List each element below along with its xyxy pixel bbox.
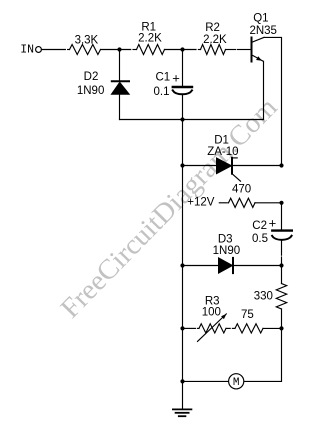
value 75 [241, 309, 254, 321]
resistor 330 [276, 284, 286, 310]
node B junction [180, 47, 184, 51]
net +12V label [187, 196, 215, 208]
resistor R1 [137, 45, 165, 55]
resistor 470 [229, 198, 256, 207]
node 470 junction [279, 201, 283, 205]
watermark FreeCircuitDiagram.Com [55, 92, 284, 325]
resistor R2 [201, 45, 226, 55]
label R1 [141, 22, 156, 34]
value 1N90 of D2 [77, 85, 105, 97]
label C1 [156, 71, 171, 83]
wire IN to 3.3K [41, 49, 65, 51]
svg-text:D1: D1 [214, 134, 229, 146]
wire Q1 emitter down [263, 61, 265, 119]
svg-text:330: 330 [254, 290, 273, 302]
svg-text:0.1: 0.1 [154, 86, 170, 98]
label Q1 [253, 13, 268, 25]
label R2 [205, 22, 220, 34]
value 2N35 [249, 25, 277, 37]
svg-text:C2: C2 [252, 220, 267, 232]
transistor Q1 [252, 37, 265, 61]
diode D3 [183, 258, 282, 273]
wire 3.3K to node A [101, 49, 131, 51]
svg-text:M: M [233, 377, 240, 389]
svg-text:1N90: 1N90 [213, 245, 241, 257]
resistor 3.3K [70, 45, 101, 55]
capacitor C2 [272, 231, 292, 266]
node D1 right junction [279, 163, 283, 167]
value 470 [232, 183, 251, 195]
motor M [229, 374, 244, 389]
svg-text:470: 470 [232, 183, 251, 195]
svg-text:+: + [172, 70, 180, 85]
node E junction left [180, 326, 184, 330]
label D1 [214, 134, 229, 146]
wire Q1 collector to right rail top [264, 37, 282, 165]
ground [173, 409, 192, 416]
node D3 left junction [180, 263, 184, 267]
svg-text:75: 75 [241, 309, 254, 321]
svg-text:D2: D2 [84, 71, 99, 83]
wire rail to 330 [281, 266, 283, 284]
wire motor to left rail [183, 380, 229, 382]
wire R2 to Q1 base [226, 49, 236, 51]
svg-text:C1: C1 [156, 71, 171, 83]
node A junction [117, 47, 121, 51]
wire 75 to right rail [263, 327, 282, 329]
label D3 [218, 234, 233, 246]
svg-text:2N35: 2N35 [249, 25, 277, 37]
node C junction [180, 117, 184, 121]
svg-text:R2: R2 [205, 22, 220, 34]
label C2 [252, 220, 267, 232]
potentiometer R3 [183, 314, 227, 342]
plus sign of C2 [269, 215, 277, 230]
node motor junction [180, 379, 184, 383]
wire right rail to C2 [281, 203, 283, 230]
svg-text:2.2K: 2.2K [203, 34, 227, 46]
label M [233, 377, 240, 389]
value 2.2K of R1 [138, 32, 162, 44]
svg-text:IN: IN [20, 43, 34, 56]
wire middle rail [182, 120, 184, 410]
wire bottom of D2/C1/emitter bus [120, 119, 264, 121]
resistor 75 [235, 324, 263, 333]
svg-text:+: + [269, 215, 277, 230]
wire 470 to right rail [255, 202, 282, 204]
value 1N90 of D3 [213, 245, 241, 257]
wire +12V to 470 [219, 202, 227, 204]
node D3 right junction [279, 263, 283, 267]
svg-text:ZA-10: ZA-10 [207, 146, 238, 158]
terminal IN [36, 47, 42, 53]
node E junction right [279, 326, 283, 330]
svg-text:2.2K: 2.2K [138, 32, 162, 44]
value 330 [254, 290, 273, 302]
wire R1 to node B [165, 49, 197, 51]
wire right rail to motor branch [244, 328, 281, 381]
node IN label [20, 43, 34, 56]
value ZA-10 [207, 146, 238, 158]
label D2 [84, 71, 99, 83]
svg-text:100: 100 [202, 306, 221, 318]
diode D2 [111, 50, 129, 120]
node D1 left junction [180, 163, 184, 167]
value 0.1 of C1 [154, 86, 170, 98]
plus sign of C1 [172, 70, 180, 85]
wire 330 to node E [281, 309, 283, 328]
svg-text:3.3K: 3.3K [75, 35, 99, 47]
value 100 of R3 [202, 306, 221, 318]
svg-text:+12V: +12V [187, 196, 215, 208]
svg-text:1N90: 1N90 [77, 85, 105, 97]
wire R3 to 75 [226, 327, 230, 329]
svg-text:0.5: 0.5 [252, 233, 268, 245]
value 0.5 of C2 [252, 233, 268, 245]
label R3 [205, 296, 220, 308]
value 3.3K [75, 35, 99, 47]
value 2.2K of R2 [203, 34, 227, 46]
diode D1 zener [183, 158, 282, 182]
svg-text:Q1: Q1 [253, 13, 268, 25]
capacitor C1 [173, 50, 192, 120]
svg-text:D3: D3 [218, 234, 233, 246]
